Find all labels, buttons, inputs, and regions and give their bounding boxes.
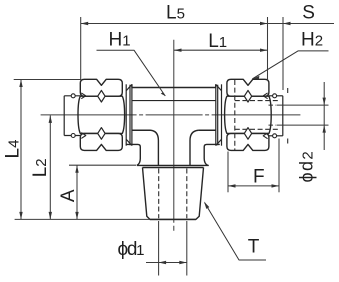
svg-text:L4: L4 xyxy=(2,140,23,159)
dim phi d1 xyxy=(146,221,187,276)
body block xyxy=(132,84,216,165)
dim L1 xyxy=(174,49,268,51)
svg-text:ϕd1: ϕd1 xyxy=(118,239,145,260)
right bracket circle top xyxy=(273,94,277,98)
right nut chamfer diamond top xyxy=(244,90,251,102)
svg-text:A: A xyxy=(58,189,79,202)
thread root hidden lines xyxy=(159,169,187,219)
right tube grip bracket xyxy=(269,96,283,136)
svg-text:L5: L5 xyxy=(166,3,185,24)
left nut chamfer diamond bottom xyxy=(98,128,105,140)
svg-text:S: S xyxy=(302,3,315,24)
leader T xyxy=(205,203,266,260)
tube end hidden vertical xyxy=(287,88,289,146)
right nut N2 xyxy=(225,79,272,150)
dim S xyxy=(268,17,335,90)
svg-text:T: T xyxy=(248,237,260,258)
skirt washer xyxy=(126,144,219,165)
dim L4 xyxy=(14,80,150,220)
right bracket circle bottom xyxy=(273,134,277,138)
centerline horizontal axis xyxy=(41,114,301,116)
dim L2 xyxy=(49,115,51,219)
left grip claw bottom xyxy=(81,133,86,139)
body hex edge line xyxy=(132,100,216,102)
dim F xyxy=(228,139,279,193)
svg-text:L2: L2 xyxy=(30,158,51,177)
tube OD hidden lines in right nut xyxy=(235,101,280,130)
left grip claw top xyxy=(81,93,86,99)
svg-text:F: F xyxy=(253,167,265,188)
tube stub lines (phi d2 extension) xyxy=(277,105,329,125)
leader H1 xyxy=(97,50,166,96)
left sleeve interface xyxy=(126,84,132,145)
dim phi d2 xyxy=(323,82,325,150)
svg-text:L1: L1 xyxy=(208,31,227,52)
tube end hidden line in right nut xyxy=(234,80,236,150)
left tube grip bracket xyxy=(64,96,80,136)
left bracket circle bottom xyxy=(71,134,75,138)
right grip claw bottom xyxy=(263,133,267,139)
dim L5 xyxy=(81,17,268,80)
svg-text:ϕd2: ϕd2 xyxy=(297,150,317,183)
left nut N1 xyxy=(78,79,125,150)
left nut chamfer diamond top xyxy=(98,90,105,102)
right sleeve interface xyxy=(216,84,222,145)
left bracket circle top xyxy=(71,94,75,98)
male thread T profile xyxy=(143,168,204,220)
right nut chamfer diamond bottom xyxy=(244,128,251,140)
centerline vertical axis xyxy=(173,40,175,233)
svg-text:H2: H2 xyxy=(301,30,323,51)
dim A xyxy=(69,165,136,219)
right grip claw top xyxy=(263,93,267,99)
svg-text:H1: H1 xyxy=(109,29,131,50)
leader H2 xyxy=(252,51,328,79)
